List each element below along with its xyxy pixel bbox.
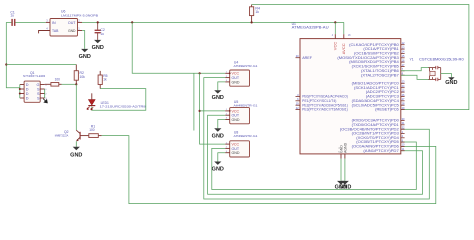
node U4 VCC dot [229,72,231,74]
wire U5 VCC feed [200,110,226,112]
svg-text:(XTAL1/TOSC1)PB6: (XTAL1/TOSC1)PB6 [361,69,399,73]
svg-text:G: G [37,83,40,87]
wire 5V rail from OUT [82,21,344,23]
svg-text:10k: 10k [80,75,86,79]
svg-text:VCC: VCC [333,42,338,51]
svg-text:GND: GND [339,185,351,191]
svg-text:CSTCE8M00G15L99-R0: CSTCE8M00G15L99-R0 [419,58,464,62]
wire sensor VCC feed drop [132,22,225,73]
ground C2 [97,39,99,41]
hall sensor U5 [225,100,258,124]
node rail-U5 VCC [199,110,201,112]
node rail-VCC [334,21,336,23]
wire U4 OUT to bus [204,78,429,199]
svg-text:GND: GND [212,167,224,173]
LED LED1 [87,93,146,110]
transistor Q1 SI7746DP-T1-E3R3 MOSFET [23,71,46,102]
resistor R4 1k (reset pullup) [250,5,261,23]
wire sensor 5V rail vertical [200,73,226,144]
svg-text:1k: 1k [255,10,259,14]
svg-text:AVCC: AVCC [341,43,346,54]
U1 left-side pin names and numbers [296,93,348,112]
wire R4 to RESET pin [252,5,469,110]
Q1 source arrow marker [43,99,47,103]
svg-text:(CLKAO/ICP1/PTCXY)PB0: (CLKAO/ICP1/PTCXY)PB0 [349,43,399,47]
node Q1 D bus dots [19,88,21,90]
capacitor C1 [6,10,46,26]
svg-text:AH49ENTR-G1: AH49ENTR-G1 [234,134,258,138]
ground U1 AGND [344,180,346,182]
svg-text:GND: GND [68,29,76,33]
wire U8 GND [218,153,225,162]
svg-text:(MISO0/RXD1/PTCXY)PB4: (MISO0/RXD1/PTCXY)PB4 [349,60,399,64]
svg-text:LM1117MPX-5.0NOPB: LM1117MPX-5.0NOPB [61,13,98,17]
svg-text:GND: GND [212,95,224,101]
svg-text:(AIN1/PTCXY)PD7: (AIN1/PTCXY)PD7 [363,149,399,153]
microcontroller U1 ATMEGA328PB-AU [292,22,401,154]
Q1 left D pin stubs [20,85,24,99]
pin 2 OUT stub [78,21,83,23]
svg-text:Y1: Y1 [410,58,414,62]
svg-text:(OC1B/SS0/PTCXY)PB2: (OC1B/SS0/PTCXY)PB2 [354,52,399,56]
wire branch to R2 [6,64,76,66]
svg-text:D: D [26,97,29,101]
svg-text:GND: GND [445,80,457,86]
svg-text:100: 100 [89,128,95,132]
wire R1 to bottom bus [102,136,436,204]
U1 right-side pin names and numbers [337,41,405,153]
wire R5 loop to LED cathode [92,89,146,111]
svg-text:(TXD0/OC4A/PTCXY)PD1: (TXD0/OC4A/PTCXY)PD1 [352,123,400,127]
wire 12V input rail (left vertical) [6,22,19,87]
svg-text:AGND: AGND [343,142,347,153]
svg-text:PE1(PTCXY/SCL1/T4): PE1(PTCXY/SCL1/T4) [302,99,336,103]
node rail-sensordrop [131,21,133,23]
wire U8 OUT to bus [212,142,416,190]
svg-text:AH49ENTR-G1: AH49ENTR-G1 [234,64,258,68]
svg-text:AREF: AREF [302,56,313,60]
wire stub branch (dead end) [193,73,195,130]
transistor Q2 MMBT2222A [55,130,80,147]
hall sensor U4 [225,61,258,87]
ground U1 GND [340,180,342,182]
resistor R3 100 (gate) [45,78,62,87]
node J1 junction on left rail [5,63,7,65]
wire R3 to junction [62,83,77,85]
svg-text:PE2(PTCXY/ADC6/ACP5/SS1): PE2(PTCXY/ADC6/ACP5/SS1) [302,103,348,107]
wire junction down to Q2 collector [75,84,77,130]
node U5 VCC dot [229,110,231,112]
svg-text:GND: GND [232,80,240,84]
node rail-C2 [97,21,99,23]
ground Q2 emitter [75,146,77,148]
svg-text:(MISO1/ADC0/PTCY)PC0: (MISO1/ADC0/PTCY)PC0 [352,81,400,85]
svg-text:GND: GND [232,151,240,155]
svg-text:GND: GND [212,133,224,139]
wire U4 GND [218,82,225,90]
node feed-rail junction [199,72,201,74]
wire regulator GND to ground [82,31,85,49]
svg-text:D: D [26,92,29,96]
node R2/R3/collector junction [75,83,77,85]
svg-text:GND: GND [92,45,104,51]
pin 1 GND stub [78,30,83,32]
svg-text:(ADC2/PTCY)PC2: (ADC2/PTCY)PC2 [366,90,399,94]
resistor R5 1k [98,71,108,89]
svg-text:SI7746DP-T1-E3R3: SI7746DP-T1-E3R3 [23,74,46,78]
svg-text:MMBT2222A: MMBT2222A [55,134,69,138]
svg-text:(SDA0/ADC4/PTCXY)PC4: (SDA0/ADC4/PTCXY)PC4 [352,99,400,103]
svg-text:D: D [26,83,29,87]
resonator Y1 CSTCE8M00G15L99-R0 [401,58,464,82]
svg-text:(SCK1/ADC1/PTCY)PC1: (SCK1/ADC1/PTCY)PC1 [354,86,399,90]
regulator U6 LM1117MPX-5.0 [50,10,98,36]
wire U5 OUT to bus [208,115,423,194]
svg-text:IN: IN [52,21,56,25]
ground U5 [217,127,219,129]
ground Y1 [450,76,452,78]
hall sensor U8 [225,130,258,157]
capacitor C2 [95,22,105,40]
svg-text:(RESET)PC6: (RESET)PC6 [375,108,399,112]
svg-text:17-21SURC/S530-A2/TR8: 17-21SURC/S530-A2/TR8 [100,105,146,109]
pin 4 TAB stub [39,26,50,33]
svg-text:TAB: TAB [52,29,59,33]
svg-text:D: D [26,88,29,92]
wire Y1 common to ground [441,74,452,78]
U1 VCC pin [332,22,338,50]
node rail-R4 [251,21,253,23]
U1 GND + AGND pins to ground [338,142,347,180]
svg-text:1k: 1k [103,78,107,82]
wire U5 GND [218,120,225,129]
ground U8 [217,161,219,163]
svg-text:ATMEGA328PB-AU: ATMEGA328PB-AU [292,25,330,29]
ground regulator [84,48,86,50]
Q1 right G/S pin stubs [40,84,47,100]
svg-text:PE3(PTCXY/ADC7/T3/MOSI1): PE3(PTCXY/ADC7/T3/MOSI1) [302,108,348,112]
svg-text:100: 100 [55,78,61,82]
svg-text:1u: 1u [100,32,104,36]
svg-text:1u: 1u [10,14,14,18]
svg-text:GND: GND [70,152,82,158]
svg-text:AH49ENTR-G1: AH49ENTR-G1 [234,104,258,108]
resistor R1 100 [80,124,102,137]
ground U4 [217,89,219,91]
svg-text:GND: GND [79,54,91,60]
svg-text:(SCL0/ADC5/PTCXY)PC5: (SCL0/ADC5/PTCXY)PC5 [352,103,400,107]
svg-text:(XTAL2/TOSC2)PB7: (XTAL2/TOSC2)PB7 [361,73,399,77]
U1 AVCC pin [341,22,351,54]
pin 3 IN stub [46,21,50,23]
svg-text:OUT: OUT [68,21,76,25]
svg-text:GND: GND [232,118,240,122]
resistor R2 10k [74,65,85,85]
